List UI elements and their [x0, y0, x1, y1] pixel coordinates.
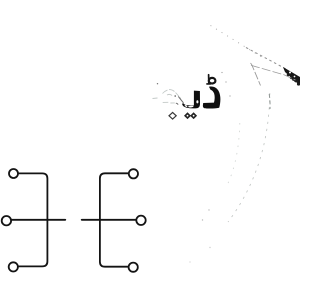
stamp: darker scribble fragments — [176, 97, 183, 105]
pen stroke: barb going down — [251, 63, 261, 86]
stamp: arabic letter Dal (large bold) — [203, 86, 221, 108]
pin 3 terminal circle (J1 bottom) — [9, 262, 18, 271]
pin 3 terminal circle (J2 bottom) — [129, 263, 138, 272]
stamp: arabic letter Ba (bowl with right bar) — [182, 91, 200, 109]
stamp edge: faint dotted arc (outer) — [228, 93, 270, 222]
connector J2 (right, female socket symbol) — [82, 169, 146, 272]
pin 2 terminal circle (J1 middle) — [2, 216, 11, 225]
pin 1 terminal circle (J2 top) — [129, 169, 138, 178]
stamp: arabic letter Tah (small) — [207, 75, 216, 84]
wire J1 middle pin stub — [12, 219, 65, 221]
wire J1 body: top pin wire, vertical bus, bottom pin wire — [19, 173, 48, 266]
connector J1 (left, male plug symbol) — [2, 169, 66, 272]
stamp edge: arc top darker tip — [268, 94, 271, 109]
pen stroke: mid diagonal segment — [246, 48, 286, 70]
wire J2 body: top pin wire, vertical bus, bottom pin wire — [100, 173, 128, 266]
stamp: hollow diamond mark — [169, 112, 176, 119]
wire J2 middle pin stub — [82, 219, 136, 221]
pin 1 terminal circle (J1 top) — [9, 169, 18, 178]
pen stroke: dark wedge at corner — [283, 67, 300, 86]
pen stroke: faint dotted diagonal to top-right — [211, 26, 265, 59]
pin 2 terminal circle (J2 middle) — [136, 216, 145, 225]
stamp edge: faint dotted arc (inner short) — [227, 123, 240, 187]
stamp: double filled diamond mark — [184, 112, 191, 119]
stamp: faded scribble left of letters — [153, 90, 181, 103]
pen stroke: lower parallel hairline — [251, 65, 296, 80]
speckle dots — [189, 72, 230, 263]
